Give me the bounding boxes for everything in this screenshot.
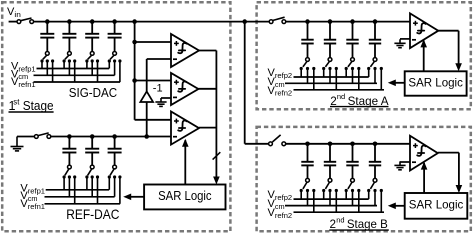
node Vcm rail: [45, 196, 115, 198]
switch contacts and stubs under Ca1: [300, 67, 316, 90]
arrowhead into U3: [182, 139, 189, 147]
wire into stage A comparator plus input: [286, 21, 410, 23]
capacitor Ca2: [324, 22, 336, 58]
top wire segment (SIG-DAC top plate to stage A): [34, 21, 270, 23]
switch S1 input sampling switch: [17, 18, 34, 24]
ground at UA minus input: [394, 39, 405, 47]
junction node on wire at capacitor Ca3: [350, 19, 355, 24]
selector switch under Cs1: [43, 52, 49, 60]
node Vrefp2 rail: [294, 198, 369, 200]
svg-text:SAR Logic: SAR Logic: [158, 189, 212, 203]
arrowhead toward stage A DAC: [388, 80, 396, 87]
wire U2 output: [198, 88, 216, 90]
switch contacts and stubs under Ca4: [367, 67, 383, 90]
switch S2 stage A sampling switch: [269, 17, 286, 23]
svg-text:REF-DAC: REF-DAC: [66, 206, 119, 222]
wire to comparator U1 minus input: [147, 58, 171, 60]
junction dot node A to U1: [132, 40, 137, 45]
arrowhead into SAR Logic A: [455, 63, 462, 71]
svg-text:Stage B: Stage B: [347, 218, 388, 231]
switch S3 REF-DAC sampling switch: [34, 133, 50, 139]
junction dot node A / top wire: [132, 19, 137, 24]
capacitor Ca4: [369, 22, 381, 58]
SAR Logic block stage 1: [144, 185, 225, 210]
minus input marker of U1: [173, 58, 177, 60]
wire to comparator U1 plus input: [135, 41, 171, 43]
capacitor Cb4: [369, 144, 381, 179]
switch contacts and stubs under Ca2: [322, 67, 338, 90]
capacitor Cb2: [324, 144, 336, 179]
svg-text:2: 2: [330, 218, 337, 231]
SAR B control line to DAC switches: [395, 205, 405, 207]
selector switch under Cs3: [88, 52, 95, 60]
plus input marker of U1: [174, 41, 179, 46]
wire UA output: [438, 30, 458, 32]
ground at UB minus input: [394, 161, 405, 169]
SAR control line to REF-DAC switches: [130, 196, 144, 198]
junction node on wire at capacitor Ca1: [305, 19, 310, 24]
arrowhead toward REF-DAC: [123, 194, 131, 201]
underline of label 1st Stage: [9, 111, 54, 113]
capacitor Ca3: [346, 22, 358, 58]
minus input marker of UB: [412, 161, 416, 163]
op-amp comparator UA: [410, 13, 438, 48]
wire ground to REF sampling switch: [17, 136, 34, 138]
arrowhead into SAR Logic B: [456, 185, 463, 193]
junction node on wire at capacitor Cr2: [90, 134, 95, 139]
wire ground to U2 minus input: [161, 97, 171, 99]
svg-text:2: 2: [330, 95, 337, 108]
switch contacts and stubs under Cr1: [63, 175, 77, 203]
node Vrefp1 rail: [37, 68, 110, 70]
svg-text:SIG-DAC: SIG-DAC: [69, 85, 118, 100]
selector switch under Cb1: [303, 178, 310, 188]
switch contacts and stubs under Cr2: [85, 175, 99, 203]
wire U1 output: [199, 50, 216, 52]
selector switch under Cs4: [110, 52, 117, 60]
underline of label 2nd Stage A: [330, 106, 389, 108]
node Vrefn1 rail: [34, 81, 121, 83]
switch S4 stage B sampling switch: [269, 135, 286, 146]
selector switch under Cr3: [110, 165, 117, 175]
arrowhead toward stage B DAC: [388, 203, 396, 210]
arrowhead into SAR Logic 1: [213, 177, 220, 185]
capacitor Cb3: [346, 144, 358, 179]
SAR Logic block stage B: [405, 193, 468, 219]
ground at REF-DAC sampling switch: [11, 137, 24, 151]
switch contacts and stubs under Cb2: [322, 189, 338, 212]
switch contacts and stubs under Cb3: [345, 189, 361, 212]
node Vcm rail: [285, 205, 377, 207]
multi-bit slash on bus: [213, 152, 221, 159]
wire to comparator U2 plus input: [135, 80, 171, 82]
wire U3 output: [199, 127, 216, 129]
node Vrefn2 rail: [294, 211, 385, 213]
junction dot node A to U2: [132, 78, 137, 83]
node Vcm rail: [285, 82, 377, 84]
wire ground to UA minus input: [400, 38, 410, 40]
capacitor Cs1: [40, 22, 54, 52]
wire from -1 amplifier output up to U1 minus: [146, 59, 148, 91]
selector switch under Ca2: [325, 58, 332, 67]
svg-text:st: st: [13, 97, 20, 106]
junction node on wire at capacitor Cs4: [112, 19, 117, 24]
capacitor Cs4: [108, 22, 122, 52]
minus input marker of U2: [173, 96, 177, 98]
clocked-comparator symbol of U2: [178, 81, 186, 91]
capacitor Cs3: [85, 22, 99, 52]
switch contacts and stubs under Cb1: [300, 189, 316, 212]
switch contacts and stubs under Cs4: [108, 59, 122, 82]
node Vcm rail: [34, 74, 115, 76]
junction node on wire at capacitor Ca2: [328, 19, 333, 24]
op-amp comparator U1: [171, 34, 199, 67]
SAR A control line to UA: [423, 41, 425, 72]
capacitor Cs2: [62, 22, 76, 52]
capacitor Cr3: [108, 137, 122, 166]
selector switch under Ca1: [303, 58, 310, 67]
node Vrefn1 rail: [45, 203, 121, 205]
wire ground to UB minus input: [400, 161, 410, 163]
switch contacts and stubs under Cs1: [40, 59, 54, 82]
node Vrefn2 rail: [294, 89, 385, 91]
capacitor Cb1: [301, 144, 313, 179]
2nd Stage B dashed boundary box: [257, 127, 471, 231]
switch contacts and stubs under Cs3: [85, 59, 99, 82]
node Vrefp1 rail: [46, 189, 109, 191]
svg-text:Stage A: Stage A: [348, 95, 389, 108]
clocked-comparator symbol of U1: [178, 43, 186, 53]
wire to comparator U3 plus input: [135, 119, 171, 121]
plus input marker of U2: [174, 80, 179, 85]
UA output down to SAR Logic A: [458, 31, 460, 65]
switch contacts and stubs under Cs2: [63, 59, 77, 82]
svg-text:nd: nd: [337, 92, 345, 101]
switch contacts and stubs under Cr3: [108, 175, 122, 203]
svg-text:-1: -1: [153, 83, 163, 95]
vertical bus wire to stage B: [244, 22, 246, 144]
UB output down to SAR Logic B: [458, 153, 460, 187]
selector switch under Cr1: [65, 165, 72, 175]
selector switch under Cb2: [325, 178, 332, 188]
selector switch under Cs2: [65, 52, 72, 60]
wire from REF-DAC node into -1 amplifier: [146, 102, 148, 137]
comparator output bus to SAR logic: [215, 51, 217, 178]
underline of label 2nd Stage B: [329, 229, 389, 231]
junction node on wire at capacitor Cb4: [373, 142, 378, 147]
op-amp comparator U3: [171, 112, 199, 145]
switch contacts and stubs under Cb4: [367, 189, 383, 212]
junction node on wire at capacitor Cb3: [350, 142, 355, 147]
selector switch under Cb4: [370, 178, 377, 188]
junction node on wire at capacitor Cs2: [67, 19, 72, 24]
op-amp comparator UB: [410, 136, 438, 171]
capacitor Cr2: [85, 137, 99, 166]
selector switch under Ca4: [370, 58, 377, 67]
svg-text:Stage: Stage: [23, 99, 54, 113]
junction node on wire at capacitor Cs3: [90, 19, 95, 24]
wire from Vin to sampling switch: [9, 21, 17, 23]
SAR control line to comparator U3: [184, 140, 186, 184]
plus input marker of UA: [413, 21, 418, 26]
SAR Logic block stage A: [405, 71, 467, 95]
junction node on wire at capacitor Ca4: [373, 19, 378, 24]
wire UB output: [438, 152, 459, 154]
minus input marker of UA: [412, 39, 416, 41]
wire into stage B sampling switch: [245, 143, 269, 145]
junction node on wire at capacitor Cb2: [328, 142, 333, 147]
svg-text:SAR Logic: SAR Logic: [408, 76, 463, 89]
junction node on wire at capacitor Cb1: [305, 142, 310, 147]
op-amp comparator U2: [171, 73, 198, 105]
arrowhead into UA: [420, 39, 427, 47]
switch contacts and stubs under Ca3: [345, 67, 361, 90]
stage B wire into comparator UB plus input: [286, 143, 410, 145]
capacitor Cr1: [62, 137, 76, 166]
ground at U2 minus input: [155, 98, 166, 106]
selector switch under Cr2: [88, 165, 95, 175]
node Vrefp2 rail: [294, 76, 369, 78]
minus input marker of U3: [173, 136, 177, 138]
plus input marker of UB: [413, 143, 418, 148]
plus input marker of U3: [174, 119, 179, 124]
junction node on wire at capacitor Cr3: [112, 134, 117, 139]
REF-DAC top plate wire to U3 minus input: [51, 136, 171, 138]
wire node A vertical (SIG-DAC top plate bus): [134, 22, 136, 120]
SAR B control line to UB: [423, 163, 425, 193]
2nd Stage A dashed boundary box: [257, 2, 471, 109]
clocked-comparator symbol of U3: [178, 121, 186, 131]
selector switch under Ca3: [348, 58, 355, 67]
svg-text:nd: nd: [336, 216, 344, 225]
junction dot top wire to stage B bus: [242, 19, 247, 24]
capacitor Ca1: [301, 22, 313, 58]
SAR A control line to DAC switches: [395, 82, 405, 84]
1st Stage dashed boundary box: [2, 2, 230, 231]
arrowhead into UB: [421, 162, 428, 170]
junction node on wire at capacitor Cr1: [67, 134, 72, 139]
clocked-comparator symbol of UA: [417, 23, 425, 33]
selector switch under Cb3: [348, 178, 355, 188]
clocked-comparator symbol of UB: [417, 146, 425, 156]
svg-text:SAR Logic: SAR Logic: [409, 199, 464, 212]
junction dot on REF-DAC wire: [144, 134, 149, 139]
amplifier A1 gain -1: [140, 91, 153, 102]
junction node on wire at capacitor Cs1: [45, 19, 50, 24]
